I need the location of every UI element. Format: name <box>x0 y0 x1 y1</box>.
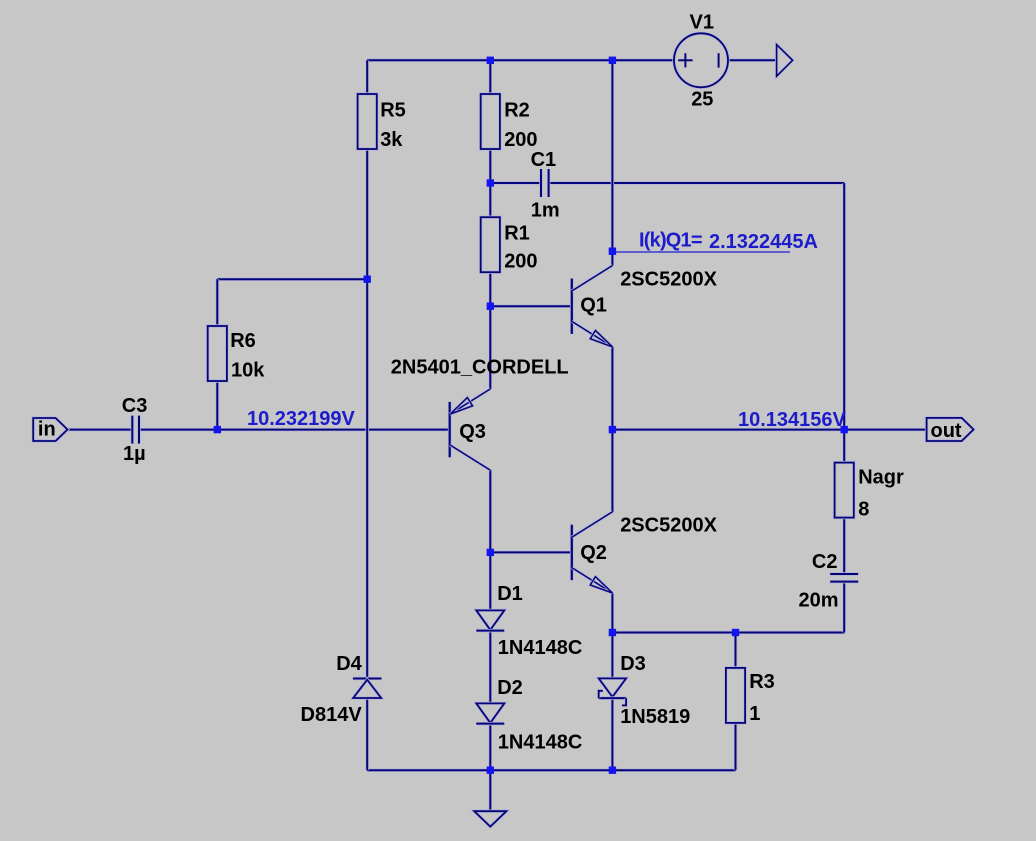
svg-text:Nagr: Nagr <box>858 467 904 489</box>
svg-text:Q1: Q1 <box>580 295 607 317</box>
svg-text:2N5401_CORDELL: 2N5401_CORDELL <box>391 357 569 379</box>
svg-text:1N4148C: 1N4148C <box>498 732 583 754</box>
svg-text:R2: R2 <box>504 100 530 122</box>
svg-text:2.1322445A: 2.1322445A <box>709 231 818 253</box>
svg-text:2SC5200X: 2SC5200X <box>620 515 717 537</box>
svg-text:Q2: Q2 <box>580 542 607 564</box>
svg-text:C1: C1 <box>531 149 557 171</box>
svg-text:10.232199V: 10.232199V <box>247 408 356 430</box>
svg-text:D814V: D814V <box>301 704 363 726</box>
svg-text:C3: C3 <box>122 395 148 417</box>
svg-text:R5: R5 <box>380 100 406 122</box>
svg-text:2SC5200X: 2SC5200X <box>620 269 717 291</box>
svg-text:Q3: Q3 <box>459 421 486 443</box>
svg-text:V1: V1 <box>690 11 714 33</box>
svg-text:200: 200 <box>504 251 537 273</box>
svg-text:20m: 20m <box>799 589 839 611</box>
svg-text:1µ: 1µ <box>123 443 146 465</box>
svg-text:3k: 3k <box>380 129 403 151</box>
svg-text:D4: D4 <box>336 653 362 675</box>
svg-text:R1: R1 <box>504 223 530 245</box>
svg-text:C2: C2 <box>812 551 838 573</box>
svg-text:R6: R6 <box>230 330 256 352</box>
svg-text:25: 25 <box>691 88 713 110</box>
svg-text:1m: 1m <box>531 200 560 222</box>
svg-text:200: 200 <box>504 129 537 151</box>
svg-text:D1: D1 <box>497 583 523 605</box>
svg-text:1N5819: 1N5819 <box>620 706 690 728</box>
svg-text:in: in <box>38 419 56 441</box>
svg-text:out: out <box>931 420 962 442</box>
svg-text:D3: D3 <box>620 653 646 675</box>
svg-text:1: 1 <box>749 703 760 725</box>
svg-text:1N4148C: 1N4148C <box>498 637 583 659</box>
svg-text:8: 8 <box>858 499 869 521</box>
svg-text:10.134156V: 10.134156V <box>738 409 847 431</box>
svg-text:R3: R3 <box>749 671 775 693</box>
svg-text:10k: 10k <box>231 360 265 382</box>
svg-text:I(k)Q1=: I(k)Q1= <box>639 229 702 251</box>
svg-text:D2: D2 <box>497 677 523 699</box>
